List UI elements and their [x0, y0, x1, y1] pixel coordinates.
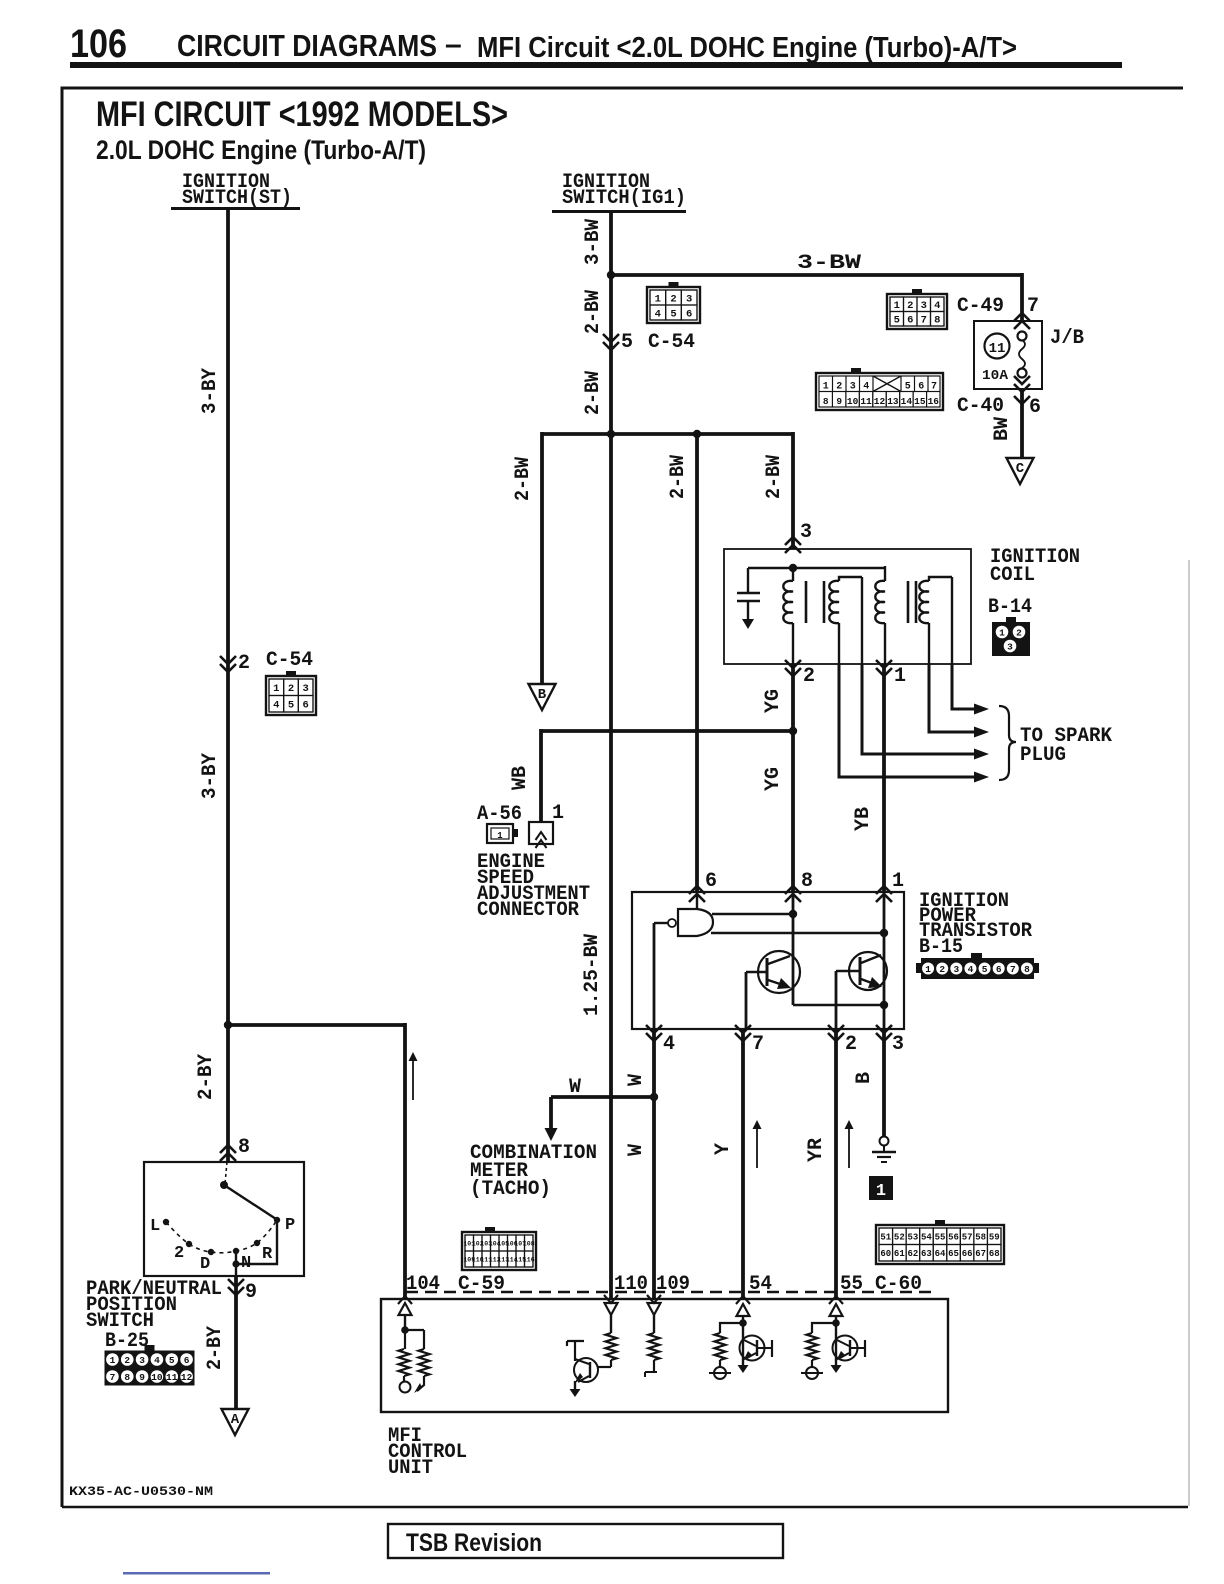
terminal circle R6 — [806, 1367, 818, 1379]
junction node ST branch — [224, 1021, 232, 1029]
arrow coil pin 2 out — [785, 668, 801, 676]
svg-text:L: L — [150, 1217, 160, 1236]
gate output line 2 — [711, 932, 884, 934]
arrow pin 2 into C-54 — [220, 664, 236, 672]
scan artifact blue line — [123, 1572, 270, 1575]
wire YR pin2 to MFI pin 55 — [834, 1029, 838, 1299]
svg-text:1: 1 — [894, 665, 906, 688]
wire W meter drop — [549, 1097, 553, 1128]
svg-text:9: 9 — [139, 1372, 145, 1383]
ignition coil box — [724, 549, 971, 664]
svg-text:2: 2 — [803, 665, 815, 688]
MFI node 104 — [401, 1326, 409, 1334]
svg-text:2: 2 — [288, 683, 294, 695]
svg-text:C: C — [1016, 461, 1025, 477]
svg-text:6: 6 — [184, 1355, 190, 1366]
junction WB / YG — [789, 727, 797, 735]
svg-text:COIL: COIL — [990, 564, 1035, 587]
svg-text:5: 5 — [905, 381, 911, 392]
MFI pin 109 arrow — [647, 1295, 661, 1303]
arrow pin 8 into park/neutral switch — [220, 1145, 236, 1153]
junction block J/B box — [974, 321, 1042, 389]
svg-text:3: 3 — [850, 381, 856, 392]
wire Q1 emitter bus — [793, 1004, 884, 1006]
terminal circle R1 — [400, 1382, 411, 1393]
connector icon A-56 — [487, 824, 513, 843]
wire 3-BW horizontal — [611, 273, 1022, 277]
svg-text:2-BW: 2-BW — [582, 371, 605, 415]
resistor R6 — [812, 1323, 836, 1333]
svg-text:16: 16 — [928, 396, 940, 407]
switch contact R — [254, 1240, 260, 1246]
connector C-59 — [462, 1232, 536, 1270]
connector C-54 upper — [647, 287, 700, 323]
svg-text:2: 2 — [907, 300, 913, 312]
wire Q2 base to pin 2 — [835, 971, 838, 1029]
svg-text:1: 1 — [273, 683, 279, 695]
connector C-60 — [876, 1225, 1004, 1264]
junction coil bus — [789, 564, 797, 572]
svg-text:1: 1 — [876, 1182, 886, 1201]
svg-text:3: 3 — [303, 683, 309, 695]
coil core 1 — [805, 581, 808, 623]
svg-text:Y: Y — [712, 1143, 735, 1155]
MFI pin 109 wire — [653, 1315, 655, 1333]
svg-text:6: 6 — [996, 964, 1002, 975]
svg-text:3: 3 — [139, 1355, 145, 1366]
ground triangle C — [1007, 458, 1034, 484]
switch contact D — [208, 1249, 214, 1255]
resistor R4 — [649, 1333, 660, 1360]
gate output line 1 — [712, 913, 793, 915]
svg-text:12: 12 — [181, 1372, 193, 1383]
connector C-40 grid — [816, 373, 943, 410]
switch junction N-P — [232, 1260, 239, 1267]
chassis ground symbol — [880, 1137, 889, 1146]
svg-text:MFI CIRCUIT <1992 MODELS>: MFI CIRCUIT <1992 MODELS> — [96, 95, 508, 134]
svg-text:2: 2 — [174, 1244, 184, 1263]
ground id black square 1 — [869, 1176, 893, 1200]
junction gate output / pin8 wire — [789, 910, 797, 918]
ground triangle B — [529, 684, 556, 710]
switch contact P — [274, 1217, 280, 1223]
svg-text:2: 2 — [939, 964, 945, 975]
svg-text:3: 3 — [800, 521, 812, 544]
MFI pin 55 arrow — [829, 1296, 843, 1304]
junction bus / IG1 wire — [607, 430, 615, 438]
coil secondary 1 top lead — [861, 577, 863, 666]
transistor Q3 — [574, 1358, 598, 1382]
wire out of switch to ground A — [234, 1276, 238, 1410]
svg-text:66: 66 — [962, 1249, 973, 1259]
connector C-54 lower — [266, 676, 316, 715]
ignition power transistor box B-15 — [632, 892, 904, 1029]
connector C-49 — [887, 294, 947, 329]
junction bus / coil feed wire — [693, 430, 701, 438]
svg-text:3-BW: 3-BW — [797, 252, 861, 275]
wire YB coil to transistor pin 1 — [882, 664, 886, 892]
svg-text:108: 108 — [523, 1240, 535, 1247]
svg-text:YG: YG — [762, 767, 785, 791]
svg-text:A: A — [231, 1412, 240, 1428]
svg-text:3: 3 — [892, 1033, 904, 1056]
arrow pin 2 out — [828, 1033, 844, 1041]
svg-text:W: W — [625, 1074, 648, 1086]
svg-text:7: 7 — [110, 1372, 116, 1383]
svg-text:2-BW: 2-BW — [763, 455, 786, 499]
arrow pin 3 out — [876, 1033, 892, 1041]
svg-text:11: 11 — [989, 341, 1006, 357]
transistor Q1 — [758, 951, 800, 993]
svg-text:5: 5 — [894, 315, 900, 327]
switch contact L — [163, 1219, 169, 1225]
svg-text:B-25: B-25 — [105, 1330, 149, 1353]
MFI control unit box — [381, 1299, 948, 1412]
svg-text:106: 106 — [70, 22, 127, 66]
coil secondary 2 top lead — [951, 577, 953, 666]
arrow pin 4 out — [646, 1033, 662, 1041]
switch lever to P contact — [224, 1185, 276, 1219]
svg-text:10: 10 — [151, 1372, 163, 1383]
svg-text:B: B — [853, 1072, 876, 1084]
svg-text:J/B: J/B — [1050, 327, 1084, 350]
gate input wire to pin 4 — [654, 922, 668, 924]
arrow pin 8 into transistor box — [785, 886, 801, 894]
svg-text:D: D — [200, 1255, 210, 1274]
svg-text:2.0L DOHC Engine (Turbo-A/T): 2.0L DOHC Engine (Turbo-A/T) — [96, 135, 426, 165]
svg-text:58: 58 — [975, 1232, 986, 1242]
svg-text:12: 12 — [874, 396, 886, 407]
fuse element 10A — [1018, 332, 1027, 341]
arrow pin 6 into transistor box — [689, 886, 705, 894]
svg-text:3: 3 — [921, 300, 927, 312]
arrow coil pin 1 out — [876, 668, 892, 676]
svg-text:7: 7 — [752, 1033, 764, 1056]
svg-text:5: 5 — [670, 308, 676, 320]
svg-text:8: 8 — [823, 396, 829, 407]
resistor R1 — [404, 1330, 406, 1349]
svg-text:7: 7 — [1027, 295, 1039, 318]
wire 3-BY from ignition switch ST down — [226, 210, 230, 1025]
svg-text:1: 1 — [894, 300, 900, 312]
svg-text:1: 1 — [497, 831, 503, 841]
wire bus 2-BW horizontal — [542, 432, 793, 436]
arrow pin 3 into ignition coil — [785, 537, 801, 545]
svg-text:4: 4 — [655, 308, 661, 320]
switch contact 2 — [186, 1241, 192, 1247]
coil top bus — [748, 567, 885, 570]
flow arrow Y — [756, 1128, 758, 1168]
svg-text:6: 6 — [705, 870, 717, 893]
svg-text:55: 55 — [935, 1232, 946, 1242]
svg-text:1: 1 — [892, 870, 904, 893]
MFI pin 54 wire — [742, 1316, 744, 1323]
coil secondary 1 winding — [829, 581, 839, 623]
svg-text:2: 2 — [238, 652, 250, 675]
svg-text:3-BY: 3-BY — [199, 753, 222, 799]
svg-text:TSB Revision: TSB Revision — [406, 1529, 542, 1557]
resistor R3 — [606, 1333, 617, 1360]
switch contact arc dashed — [166, 1220, 277, 1253]
switch pivot — [220, 1181, 228, 1189]
svg-text:51: 51 — [880, 1232, 891, 1242]
svg-text:4: 4 — [934, 300, 940, 312]
svg-text:–: – — [445, 28, 462, 61]
arrow pin 6 out of J/B — [1014, 384, 1030, 392]
wire 3-BW down to J/B — [1020, 273, 1024, 322]
svg-text:2-BW: 2-BW — [582, 290, 605, 334]
svg-text:A-56: A-56 — [477, 803, 522, 826]
svg-text:54: 54 — [921, 1232, 932, 1242]
MFI pin 104 arrow — [398, 1296, 412, 1304]
wire 2-BW down to power transistor pin 6 — [695, 432, 699, 892]
svg-text:7: 7 — [921, 315, 927, 327]
svg-text:60: 60 — [880, 1249, 891, 1259]
gate input wire from pin 6 — [696, 892, 698, 910]
svg-text:1: 1 — [552, 802, 564, 825]
arrow pin 7 out — [735, 1033, 751, 1041]
wire spark plug lead 3 — [862, 664, 974, 754]
svg-text:CONNECTOR: CONNECTOR — [477, 899, 579, 922]
svg-text:61: 61 — [894, 1249, 905, 1259]
svg-text:2: 2 — [670, 293, 676, 305]
svg-text:2-BW: 2-BW — [667, 455, 690, 499]
junction IG1 / 3-BW — [607, 271, 615, 279]
wire branch to MFI pin 104 horizontal — [228, 1023, 405, 1027]
header rule — [70, 62, 1122, 68]
svg-text:1: 1 — [110, 1355, 116, 1366]
svg-text:1: 1 — [999, 627, 1005, 638]
svg-text:YB: YB — [852, 807, 875, 831]
svg-text:KX35-AC-U0530-NM: KX35-AC-U0530-NM — [69, 1484, 213, 1499]
svg-text:W: W — [569, 1076, 581, 1099]
wire pin 8 through transistor Q1 — [792, 892, 795, 1005]
svg-text:B-14: B-14 — [988, 596, 1032, 619]
wire 2-BW down to ignition coil pin 3 — [791, 432, 795, 549]
terminal circle R5 — [714, 1367, 726, 1379]
junction gate output / pin1 wire — [880, 929, 888, 937]
svg-text:9: 9 — [245, 1281, 257, 1304]
svg-text:2-BW: 2-BW — [512, 457, 535, 501]
svg-text:5: 5 — [982, 964, 988, 975]
svg-text:YR: YR — [805, 1138, 828, 1162]
svg-text:14: 14 — [901, 396, 913, 407]
svg-text:2: 2 — [124, 1355, 130, 1366]
svg-text:2: 2 — [845, 1033, 857, 1056]
wire from ignition switch IG1 down to MFI pin 110 — [609, 212, 613, 1299]
switch wire N down — [235, 1251, 237, 1276]
svg-text:3-BY: 3-BY — [199, 368, 222, 414]
svg-text:4: 4 — [663, 1033, 675, 1056]
svg-text:MFI Circuit <2.0L DOHC Engine: MFI Circuit <2.0L DOHC Engine (Turbo)-A/… — [477, 32, 1017, 64]
svg-text:R: R — [262, 1245, 273, 1264]
coil secondary 2 winding — [919, 581, 929, 623]
svg-text:3-BW: 3-BW — [582, 219, 605, 265]
coil core 2 — [907, 581, 910, 623]
svg-text:11: 11 — [166, 1372, 178, 1383]
wire WB horizontal — [541, 729, 793, 733]
connector B-25 — [105, 1351, 194, 1385]
svg-text:68: 68 — [989, 1249, 1000, 1259]
svg-text:1: 1 — [823, 381, 829, 392]
svg-text:B: B — [538, 687, 547, 703]
svg-text:C-49: C-49 — [957, 295, 1004, 318]
svg-text:6: 6 — [1029, 396, 1041, 419]
MFI node 55 — [832, 1319, 840, 1327]
svg-text:2: 2 — [1016, 627, 1022, 638]
arrow pin 9 out of switch — [228, 1287, 244, 1295]
flow arrow YR — [848, 1128, 850, 1168]
switch wire P to N junction — [236, 1220, 277, 1264]
TSB Revision box — [388, 1524, 783, 1558]
svg-text:56: 56 — [948, 1232, 959, 1242]
coil primary 2 winding — [875, 581, 885, 623]
svg-text:8: 8 — [238, 1136, 250, 1159]
svg-text:6: 6 — [303, 700, 309, 712]
svg-text:8: 8 — [801, 870, 813, 893]
svg-text:64: 64 — [935, 1249, 946, 1259]
connector terminal chevron box A-56 — [529, 822, 553, 844]
svg-text:SWITCH(IG1): SWITCH(IG1) — [562, 187, 686, 210]
resistor R2 branch — [405, 1329, 424, 1331]
svg-text:9: 9 — [836, 396, 842, 407]
svg-text:UNIT: UNIT — [388, 1457, 433, 1480]
wire Y pin7 to MFI pin 54 — [741, 1029, 745, 1299]
svg-text:5: 5 — [169, 1355, 175, 1366]
MFI pin 110 wire — [610, 1315, 612, 1333]
svg-text:3: 3 — [953, 964, 959, 975]
wire spark plug lead 2 — [929, 664, 974, 732]
svg-text:53: 53 — [907, 1232, 918, 1242]
svg-text:10: 10 — [847, 396, 859, 407]
svg-text:59: 59 — [989, 1232, 1000, 1242]
svg-text:5: 5 — [288, 700, 294, 712]
wire spark plug lead 4 — [839, 664, 974, 777]
svg-text:1: 1 — [655, 293, 661, 305]
wire spark plug lead 1 — [952, 664, 974, 709]
svg-text:C-54: C-54 — [648, 331, 695, 354]
svg-text:(TACHO): (TACHO) — [470, 1178, 551, 1201]
MFI pin 104 wire — [404, 1315, 406, 1330]
junction emitter bus / pin3 wire — [880, 1001, 888, 1009]
svg-text:BW: BW — [991, 417, 1014, 441]
transistor Q2 — [849, 952, 887, 990]
svg-text:8: 8 — [1024, 964, 1030, 975]
svg-text:PLUG: PLUG — [1020, 744, 1066, 767]
coil primary 1 winding — [783, 581, 793, 623]
flow arrow 2-BY — [412, 1060, 414, 1100]
wire pin 1 through transistor Q2 — [883, 892, 886, 1029]
svg-text:15: 15 — [914, 396, 926, 407]
svg-text:C-54: C-54 — [266, 649, 313, 672]
arrow pin 1 into transistor box — [876, 886, 892, 894]
svg-text:52: 52 — [894, 1232, 905, 1242]
svg-text:8: 8 — [124, 1372, 130, 1383]
wire B pin3 to ground — [882, 1029, 886, 1137]
svg-text:65: 65 — [948, 1249, 959, 1259]
resistor R5 — [720, 1323, 743, 1333]
transistor Q5 — [835, 1323, 837, 1360]
svg-text:2-BY: 2-BY — [204, 1326, 227, 1370]
svg-text:6: 6 — [918, 381, 924, 392]
svg-text:4: 4 — [968, 964, 974, 975]
logic gate U1 — [678, 909, 713, 936]
svg-text:8: 8 — [934, 315, 940, 327]
arrow pin 7 into J/B — [1014, 313, 1030, 321]
connector B-15 — [921, 958, 1034, 979]
arrow pin 5 into C-54 — [603, 342, 619, 350]
svg-text:P: P — [285, 1216, 295, 1235]
svg-text:63: 63 — [921, 1249, 932, 1259]
wire WB down to A-56 — [539, 729, 543, 822]
wire Q1 base to pin 7 — [745, 972, 748, 1029]
switch contact N — [233, 1248, 239, 1254]
svg-text:C-40: C-40 — [957, 395, 1004, 418]
svg-text:3: 3 — [1007, 641, 1013, 652]
wire 2-BW down to ground B — [540, 432, 544, 684]
svg-text:11: 11 — [860, 396, 872, 407]
svg-text:10A: 10A — [982, 368, 1009, 384]
svg-text:6: 6 — [907, 315, 913, 327]
svg-text:7: 7 — [931, 381, 937, 392]
svg-text:67: 67 — [975, 1249, 986, 1259]
svg-text:4: 4 — [863, 381, 869, 392]
svg-text:SWITCH(ST): SWITCH(ST) — [182, 187, 292, 210]
MFI pin 110 arrow — [604, 1295, 618, 1303]
svg-text:1.25-BW: 1.25-BW — [581, 934, 604, 1016]
wire W to combination meter — [551, 1095, 654, 1099]
svg-text:W: W — [625, 1144, 648, 1156]
svg-text:WB: WB — [509, 766, 532, 790]
wire YG coil to transistor pin 8 — [791, 664, 795, 892]
svg-text:116: 116 — [523, 1256, 535, 1263]
capacitor C in coil — [747, 568, 749, 592]
dashed connector line — [406, 1291, 932, 1293]
switch wire dashed to pivot — [225, 1162, 227, 1184]
wire 2-BY to MFI pin 104 — [403, 1023, 407, 1299]
junction W tap — [650, 1093, 658, 1101]
wire 2-BY down to park/neutral switch — [226, 1023, 230, 1162]
MFI pin 55 wire — [835, 1316, 837, 1323]
svg-text:YG: YG — [762, 689, 785, 713]
svg-text:3: 3 — [686, 293, 692, 305]
svg-text:B-15: B-15 — [919, 936, 963, 959]
svg-text:2: 2 — [836, 381, 842, 392]
svg-text:CIRCUIT DIAGRAMS: CIRCUIT DIAGRAMS — [177, 28, 437, 63]
MFI pin 54 arrow — [736, 1296, 750, 1304]
svg-text:4: 4 — [273, 700, 279, 712]
transistor Q4 — [742, 1323, 744, 1360]
park/neutral position switch box — [144, 1162, 304, 1276]
svg-text:4: 4 — [154, 1355, 160, 1366]
svg-text:6: 6 — [686, 308, 692, 320]
svg-text:5: 5 — [621, 331, 633, 354]
fuse circuit 11 — [985, 334, 1010, 359]
svg-text:13: 13 — [887, 396, 899, 407]
connector B-14 — [992, 622, 1030, 656]
MFI node 54 — [739, 1319, 747, 1327]
svg-text:62: 62 — [907, 1249, 918, 1259]
svg-text:2-BY: 2-BY — [195, 1054, 218, 1100]
wire out of J/B down — [1020, 389, 1024, 458]
svg-text:1: 1 — [925, 964, 931, 975]
brace to spark plug — [999, 706, 1016, 780]
svg-text:57: 57 — [962, 1232, 973, 1242]
svg-text:7: 7 — [1010, 964, 1016, 975]
ground triangle A — [222, 1409, 249, 1435]
wire W pin4 to MFI pin 109 — [652, 1029, 656, 1299]
